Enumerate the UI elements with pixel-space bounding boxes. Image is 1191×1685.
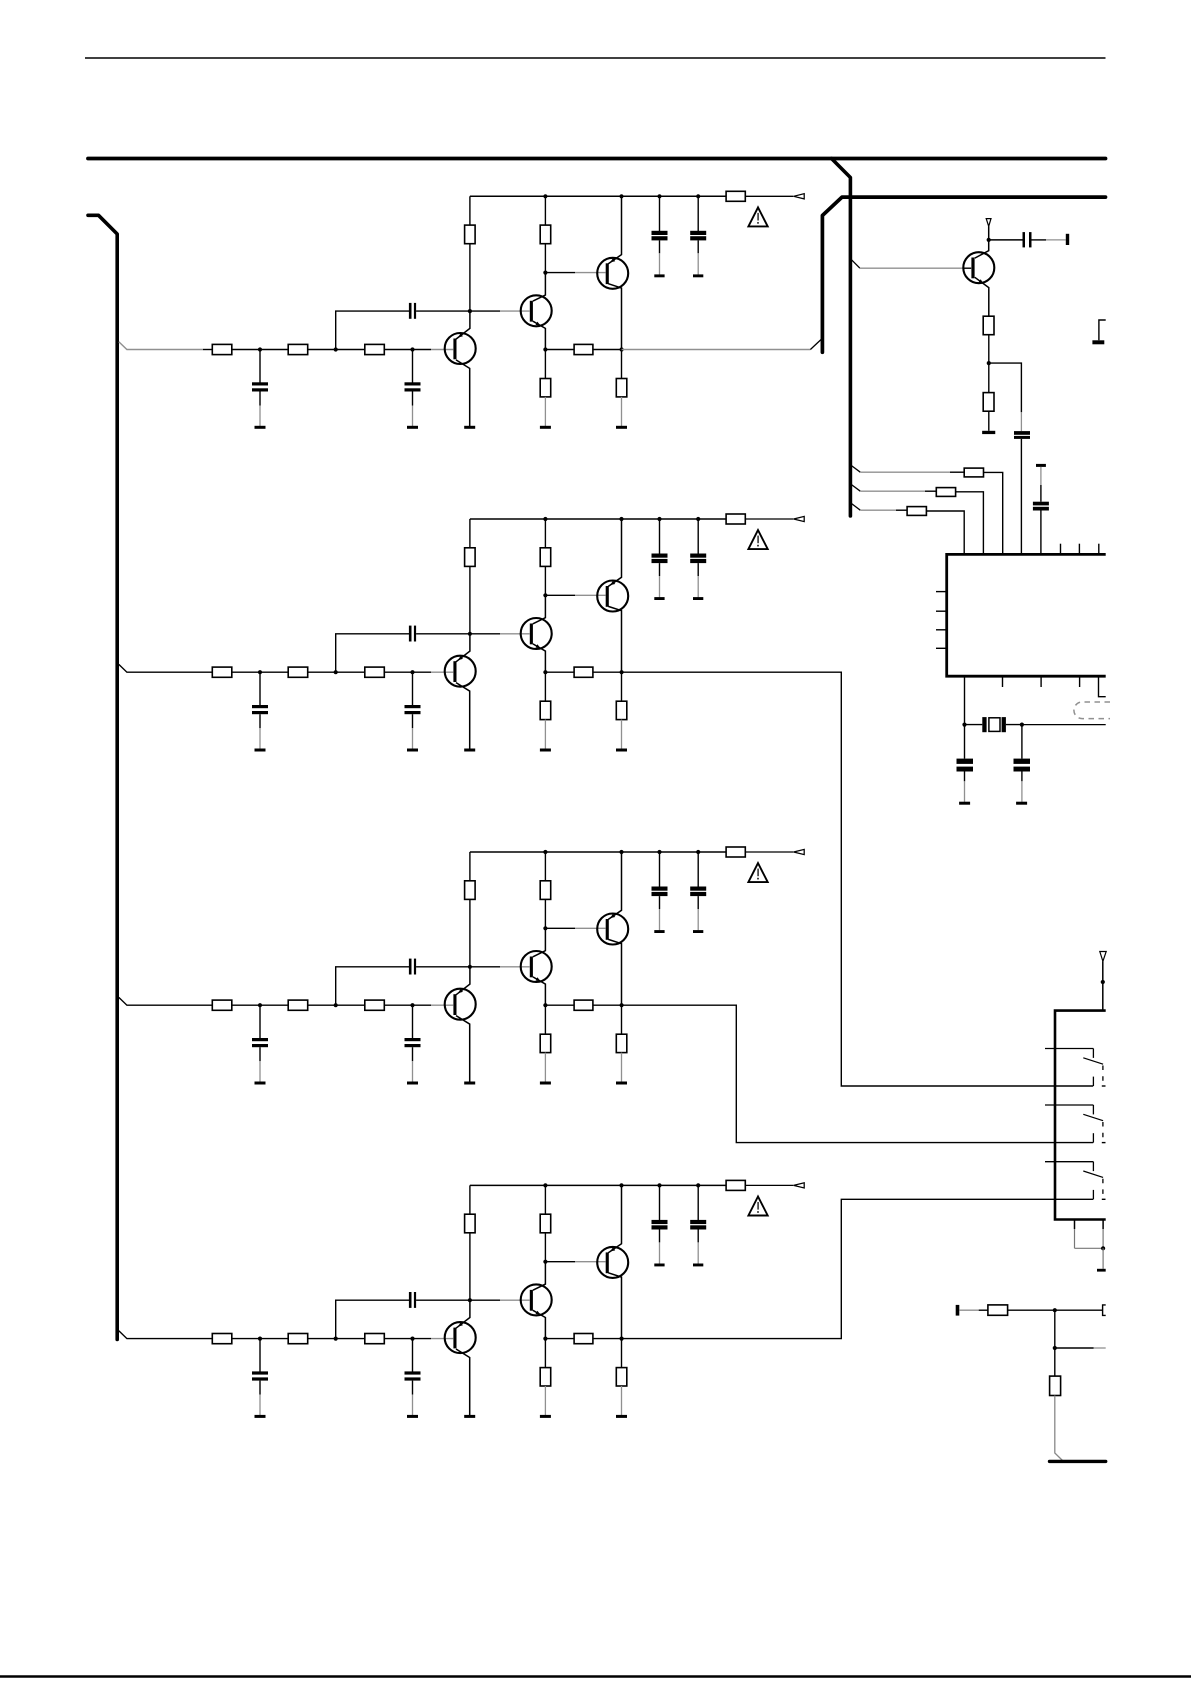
pin stub IC left 3 (936, 629, 947, 631)
resistor R8 emitter Q3 (amp 3) (616, 1034, 627, 1052)
wire node A down to C1 (amp 3) (259, 1006, 261, 1038)
wire C22 to IC pin5 (1040, 511, 1042, 554)
transistor Q1 (amp 1) (445, 311, 476, 426)
node rail-R5 junction (amp 4) (543, 1183, 547, 1187)
wire Q3 emitter to R8 (amp 1) (621, 350, 623, 379)
terminal bar above C22 (1036, 464, 1046, 467)
capacitor C3 coupling (amp 1) (409, 303, 416, 319)
off-page connector arrow (amp 4) (794, 1183, 805, 1188)
pin stub IC bottom 2 (1002, 676, 1004, 687)
wire R7 to node G (amp 1) (593, 349, 622, 351)
wire R4 to node D (amp 4) (469, 1233, 471, 1300)
ground below switch box (1097, 1269, 1106, 1272)
wire R7 to node G (amp 2) (593, 671, 622, 673)
wire R3 to node C (amp 2) (384, 671, 412, 673)
wire rail down to R5 (amp 2) (544, 519, 546, 548)
node AGC junction (1053, 1308, 1057, 1312)
ground below C24 (1016, 802, 1027, 805)
bus: left input bus (thick vertical) (88, 215, 117, 1339)
wire R9 to off-page arrow (amp 3) (745, 851, 793, 853)
resistor R6 emitter Q2 (amp 3) (540, 1034, 551, 1052)
node rail-R5 junction (amp 2) (543, 517, 547, 521)
resistor R3 series (amp 2) (365, 667, 385, 677)
wire C2 to ground (amp 3) (412, 1047, 414, 1082)
wire C23 to ground (964, 772, 966, 802)
wire R8 to ground (amp 1) (621, 397, 623, 426)
pin stub IC left 2 (936, 610, 947, 612)
node E junction (amp 3) (543, 926, 547, 930)
wire R6 to ground (amp 4) (544, 1386, 546, 1415)
wire branch2 from bus (851, 485, 936, 492)
capacitor C24 crystal load (1014, 759, 1031, 772)
wire R6 to ground (amp 3) (544, 1053, 546, 1082)
capacitor C5 rail bypass (amp 1) (690, 231, 706, 241)
node on antenna2 line (1101, 980, 1105, 984)
terminal bar below C4 (amp 3) (654, 930, 664, 933)
ground below R8 (amp 4) (616, 1415, 627, 1418)
node B junction (amp 4) (334, 1337, 338, 1341)
wire R2 to node B to R3 (amp 2) (308, 671, 365, 673)
ground below C2 (amp 1) (407, 426, 418, 429)
wire output amp4 to switch S3 (622, 1199, 1094, 1338)
wire IC pin to crystal node (964, 676, 966, 724)
off-page connector arrow (amp 3) (794, 849, 805, 854)
wire base of Q3 (amp 3) (545, 927, 605, 929)
node C junction (amp 3) (410, 1003, 414, 1007)
resistor R8 emitter Q3 (amp 2) (616, 701, 627, 719)
wire node F to R7 (amp 4) (545, 1338, 574, 1340)
wire node F to R7 (amp 3) (545, 1004, 574, 1006)
wire C5 to terminal (amp 4) (697, 1230, 699, 1264)
wire C2 to ground (amp 1) (412, 392, 414, 427)
terminal bar below C5 (amp 1) (693, 274, 703, 277)
wire R5 to node E (amp 3) (544, 899, 546, 928)
transistor Q3 (amp 3) (597, 852, 628, 1005)
resistor R5 collector load Q2 (amp 2) (540, 548, 551, 567)
wire base of Q1 (amp 2) (413, 671, 454, 673)
resistor R23 branch2 (936, 488, 955, 497)
resistor R5 collector load Q2 (amp 3) (540, 881, 551, 900)
wire terminal to R30 (959, 1309, 988, 1311)
wire node F to R7 (amp 1) (545, 349, 574, 351)
switch S2 lever (1083, 1114, 1103, 1120)
wire R3 to node C (amp 3) (384, 1004, 412, 1006)
resistor R9 rail feed (amp 3) (726, 847, 745, 857)
capacitor C2 to ground (amp 4) (405, 1371, 421, 1380)
terminal bar below C5 (amp 2) (693, 597, 703, 600)
wire box bottom left pin loop (1075, 1221, 1104, 1249)
wire rail down to C4 (amp 3) (659, 852, 661, 887)
resistor R4 collector load Q1 (amp 1) (465, 225, 476, 244)
capacitor C4 rail bypass (amp 1) (652, 231, 668, 241)
wire rail down to R5 (amp 3) (544, 852, 546, 881)
wire base of Q1 (amp 4) (413, 1338, 454, 1340)
wire node right and down to C21 (989, 363, 1022, 431)
node rail-Q3 junction (amp 4) (619, 1183, 623, 1187)
pin stub IC left 1 (936, 591, 947, 593)
wire R20 to node (988, 335, 990, 363)
wire R22 to IC pin3 (984, 472, 1003, 553)
wire C3 to node D (amp 1) (416, 310, 470, 312)
node C junction (amp 4) (410, 1337, 414, 1341)
off-page connector arrow (amp 1) (794, 194, 805, 199)
resistor R7 emitter link (amp 4) (574, 1334, 593, 1344)
wire input from left bus (amp 1) (119, 342, 203, 350)
wire node C down to C2 (amp 2) (412, 673, 414, 705)
wire R9 to off-page arrow (amp 1) (745, 195, 793, 197)
wire base of Q2 (amp 2) (471, 633, 530, 635)
wire rail down to C5 (amp 1) (697, 196, 699, 231)
wire C1 to ground (amp 1) (259, 392, 261, 427)
wire input into R1 (amp 1) (203, 349, 212, 351)
wire C2 to ground (amp 2) (412, 714, 414, 749)
ground at clipped wire (1092, 340, 1104, 344)
wire C5 to terminal (amp 2) (697, 563, 699, 597)
node rail-C4 junction (amp 4) (657, 1183, 661, 1187)
pin IC bottom 5 to off-page (1099, 676, 1106, 697)
wire C1 to ground (amp 4) (259, 1381, 261, 1416)
resistor R1 series input (amp 1) (212, 344, 232, 354)
wire box bottom right pin (1102, 1221, 1104, 1249)
resistor R8 emitter Q3 (amp 1) (616, 379, 627, 397)
resistor R22 branch1 (964, 468, 983, 477)
wire R23 to IC pin2 (956, 492, 984, 553)
wire node to C23 (964, 725, 966, 759)
transistor Q3 (amp 2) (597, 519, 628, 672)
crystal X1 (982, 717, 1006, 732)
wire node A down to C1 (amp 1) (259, 351, 261, 383)
wire C4 to terminal (amp 4) (659, 1230, 661, 1264)
node Q4 collector junction (987, 238, 991, 242)
resistor R1 series input (amp 4) (212, 1334, 232, 1344)
resistor R3 series (amp 1) (365, 344, 385, 354)
resistor R8 emitter Q3 (amp 4) (616, 1368, 627, 1386)
wire R6 to ground (amp 2) (544, 720, 546, 749)
wire crystal node2 to off-page (1022, 724, 1106, 726)
page footer rule (0, 1675, 1191, 1678)
node rail-C4 junction (amp 3) (657, 850, 661, 854)
switch S1 upper contact pin (1045, 1049, 1093, 1058)
wire node to crystal (965, 724, 983, 726)
node rail-C4 junction (amp 1) (657, 194, 661, 198)
switch S3 upper contact pin (1045, 1162, 1093, 1171)
wire node to C20 (989, 239, 1023, 241)
wire node A down to C1 (amp 4) (259, 1340, 261, 1372)
node B junction (amp 2) (334, 670, 338, 674)
wire rail down to R4 (amp 4) (469, 1185, 471, 1214)
terminal bar below C5 (amp 4) (693, 1264, 703, 1267)
wire output amp2 to switch S1 (622, 672, 1094, 1086)
wire branch1 from bus (851, 466, 964, 473)
capacitor C23 crystal load (957, 759, 974, 772)
warning triangle symbol (amp 2) (748, 530, 767, 549)
switch S3 linkage (dashed) (1102, 1179, 1104, 1195)
resistor R2 series (amp 3) (288, 1000, 308, 1010)
wire Q3 emitter to R8 (amp 3) (621, 1005, 623, 1034)
capacitor C3 coupling (amp 2) (409, 626, 416, 642)
node A junction (amp 3) (258, 1003, 262, 1007)
node E junction (amp 4) (543, 1260, 547, 1264)
ground below Q1 emitter (amp 3) (464, 1082, 475, 1085)
transistor Q2 (amp 3) (521, 928, 552, 1005)
bus: branch from top rail down to IC area (thick vertical x=850) (832, 159, 851, 517)
wire C1 to ground (amp 3) (259, 1047, 261, 1082)
wire R4 to node D (amp 1) (469, 244, 471, 311)
wire node F to R7 (amp 2) (545, 671, 574, 673)
wire rail down to C4 (amp 4) (659, 1185, 661, 1220)
wire R1 to node A (amp 2) (232, 671, 288, 673)
wire C4 to terminal (amp 1) (659, 240, 661, 274)
switch S2 linkage tail (dashed) (1102, 1142, 1106, 1144)
transistor Q1 (amp 4) (445, 1300, 476, 1415)
switch S3 lower contact hook (1092, 1190, 1094, 1199)
ground below C2 (amp 2) (407, 749, 418, 752)
wire C5 to terminal (amp 1) (697, 240, 699, 274)
supply rail of amp (amp 2) (470, 518, 726, 520)
wire R3 to node C (amp 1) (384, 349, 412, 351)
wire Q2 emitter to R6 (amp 1) (544, 350, 546, 379)
wire C24 to ground (1021, 772, 1023, 802)
resistor R7 emitter link (amp 3) (574, 1000, 593, 1010)
node Q4 emitter divider junction (987, 361, 991, 365)
capacitor C1 to ground (amp 4) (252, 1371, 268, 1380)
terminal bar below C4 (amp 4) (654, 1264, 664, 1267)
transistor Q1 (amp 2) (445, 634, 476, 749)
wire C3 to node D (amp 3) (416, 966, 470, 968)
wire branch3 from bus (851, 503, 907, 510)
resistor R20 emitter Q4 (983, 316, 994, 335)
terminal bar below C5 (amp 3) (693, 930, 703, 933)
pin stub IC left 4 (936, 647, 947, 649)
ground below R8 (amp 2) (616, 749, 627, 752)
ground below C1 (amp 3) (255, 1082, 266, 1085)
wire R7 to node G (amp 4) (593, 1338, 622, 1340)
capacitor C4 rail bypass (amp 4) (652, 1220, 668, 1230)
wire R2 to node B to R3 (amp 3) (308, 1004, 365, 1006)
node crystal left junction (962, 723, 966, 727)
wire R4 to node D (amp 2) (469, 566, 471, 633)
wire R1 to node A (amp 4) (232, 1338, 288, 1340)
wire base into Q4 (964, 267, 972, 269)
capacitor C5 rail bypass (amp 4) (690, 1220, 706, 1230)
ground below C2 (amp 3) (407, 1082, 418, 1085)
wire rail down to R4 (amp 1) (469, 196, 471, 225)
supply rail of amp (amp 3) (470, 851, 726, 853)
node AGC junction 2 (1053, 1346, 1057, 1350)
resistor R9 rail feed (amp 2) (726, 514, 745, 524)
wire base of Q2 (amp 1) (471, 310, 530, 312)
node rail-R5 junction (amp 3) (543, 850, 547, 854)
terminal bar right of C20 (1066, 234, 1069, 245)
terminal bar below C4 (amp 2) (654, 597, 664, 600)
wire base of Q3 (amp 1) (545, 272, 605, 274)
ground below C1 (amp 1) (255, 426, 266, 429)
wire node2 to C24 (1021, 725, 1023, 759)
wire crystal to node2 (1006, 724, 1022, 726)
ground below R6 (amp 2) (540, 749, 551, 752)
wire R9 to off-page arrow (amp 2) (745, 518, 793, 520)
wire R2 to node B to R3 (amp 1) (308, 349, 365, 351)
wire input from left bus (amp 2) (119, 664, 213, 672)
resistor R4 collector load Q1 (amp 2) (465, 548, 476, 567)
node B junction (amp 3) (334, 1003, 338, 1007)
wire node to clipped connector (1055, 1309, 1103, 1311)
capacitor C22 series to IC (1033, 502, 1049, 511)
wire output amp3 to switch S2 (622, 1005, 1094, 1142)
switch S1 linkage (dashed) (1102, 1066, 1104, 1082)
bus: second rail y=197 with drop to block1 output (thick) (822, 197, 1105, 352)
transistor Q3 (amp 4) (597, 1185, 628, 1338)
wire rail down to R4 (amp 2) (469, 519, 471, 548)
node E junction (amp 2) (543, 593, 547, 597)
wire node B up and over to C3 (amp 2) (336, 634, 409, 672)
ground below R6 (amp 1) (540, 426, 551, 429)
capacitor C2 to ground (amp 2) (405, 705, 421, 714)
wire node C down to C2 (amp 1) (412, 351, 414, 383)
wire C5 to terminal (amp 3) (697, 896, 699, 930)
wire rail down to R4 (amp 3) (469, 852, 471, 881)
off-page connector arrow (amp 2) (794, 516, 805, 521)
dashed module outline (clipped) (1074, 702, 1110, 719)
wire node A down to C1 (amp 2) (259, 673, 261, 705)
wire base of Q3 (amp 4) (545, 1261, 605, 1263)
capacitor C1 to ground (amp 1) (252, 382, 268, 391)
switch S3 lever (1083, 1171, 1103, 1177)
wire rail down to C4 (amp 1) (659, 196, 661, 231)
capacitor C3 coupling (amp 4) (409, 1292, 416, 1308)
ground below C23 (959, 802, 970, 805)
wire C2 to ground (amp 4) (412, 1381, 414, 1416)
wire node B up and over to C3 (amp 3) (336, 967, 409, 1005)
node B junction (amp 1) (334, 347, 338, 351)
capacitor C1 to ground (amp 3) (252, 1038, 268, 1047)
wire R2 to node B to R3 (amp 4) (308, 1338, 365, 1340)
wire R24 to IC pin1 (926, 511, 964, 553)
capacitor C20 coupling (1023, 232, 1032, 247)
ground below R6 (amp 3) (540, 1082, 551, 1085)
transistor Q4 (963, 241, 994, 316)
wire base of Q1 (amp 1) (413, 349, 454, 351)
wire antenna2 line to switch box (1100, 952, 1106, 1011)
node D junction (amp 1) (468, 309, 472, 313)
switch S2 upper contact pin (1045, 1105, 1093, 1114)
wire C4 to terminal (amp 3) (659, 896, 661, 930)
resistor R4 collector load Q1 (amp 4) (465, 1214, 476, 1233)
wire R8 to ground (amp 4) (621, 1386, 623, 1415)
supply rail of amp (amp 4) (470, 1184, 726, 1186)
wire C4 to terminal (amp 2) (659, 563, 661, 597)
IC U1 tuner chip (clipped at right) (947, 554, 1106, 676)
ground below R8 (amp 3) (616, 1082, 627, 1085)
capacitor C4 rail bypass (amp 3) (652, 887, 668, 897)
wire node B up and over to C3 (amp 1) (336, 311, 409, 349)
node G junction (amp 4) (620, 1337, 624, 1341)
transistor Q1 (amp 3) (445, 967, 476, 1082)
wire node B up and over to C3 (amp 4) (336, 1300, 409, 1338)
ground below C1 (amp 2) (255, 749, 266, 752)
node G junction (amp 3) (620, 1003, 624, 1007)
wire R6 to ground (amp 1) (544, 397, 546, 426)
wire rail down to C5 (amp 2) (697, 519, 699, 554)
bus: top supply rail (thick) (88, 157, 1106, 161)
node C junction (amp 1) (410, 347, 414, 351)
wire R8 to ground (amp 2) (621, 720, 623, 749)
switch S1 linkage tail (dashed) (1102, 1085, 1106, 1087)
pin stub IC bottom 3 (1040, 676, 1042, 687)
node A junction (amp 4) (258, 1337, 262, 1341)
pin stub IC top 6 (1060, 544, 1062, 554)
wire R30 to node (1008, 1309, 1055, 1311)
wire base of Q2 (amp 4) (471, 1299, 530, 1301)
resistor R2 series (amp 1) (288, 344, 308, 354)
node crystal right junction (1020, 723, 1024, 727)
node rail-R5 junction (amp 1) (543, 194, 547, 198)
wire base of Q3 (amp 2) (545, 594, 605, 596)
wire R1 to node A (amp 1) (232, 349, 288, 351)
resistor R2 series (amp 2) (288, 667, 308, 677)
node rail-C5 junction (amp 2) (696, 517, 700, 521)
node F junction (amp 1) (543, 347, 547, 351)
warning triangle symbol (amp 4) (748, 1197, 767, 1216)
node F junction (amp 4) (543, 1337, 547, 1341)
resistor R21 to ground (983, 393, 994, 412)
resistor R3 series (amp 4) (365, 1334, 385, 1344)
node A junction (amp 1) (258, 347, 262, 351)
terminal bar AGC input (956, 1305, 960, 1316)
resistor R1 series input (amp 3) (212, 1000, 232, 1010)
capacitor C1 to ground (amp 2) (252, 705, 268, 714)
switch S3 linkage tail (dashed) (1102, 1198, 1106, 1200)
wire C3 to node D (amp 2) (416, 633, 470, 635)
page header rule (85, 57, 1106, 59)
node below switch box (1101, 1246, 1105, 1250)
wire node to ground (1102, 1248, 1104, 1269)
wire R5 to node E (amp 4) (544, 1233, 546, 1262)
wire Q2 emitter to R6 (amp 3) (544, 1005, 546, 1034)
node A junction (amp 2) (258, 670, 262, 674)
wire terminal to C22 (1040, 467, 1042, 502)
node rail-C5 junction (amp 1) (696, 194, 700, 198)
node rail-Q3 junction (amp 1) (619, 194, 623, 198)
wire rail down to C4 (amp 2) (659, 519, 661, 554)
capacitor C4 rail bypass (amp 2) (652, 554, 668, 564)
switch S2 linkage (dashed) (1102, 1122, 1104, 1138)
wire output amp1 to second rail bus (622, 339, 822, 350)
node rail-C4 junction (amp 2) (657, 517, 661, 521)
wire R4 to node D (amp 3) (469, 899, 471, 966)
terminal bar below C4 (amp 1) (654, 274, 664, 277)
pin stub IC top 7 (1078, 544, 1080, 554)
resistor R6 emitter Q2 (amp 1) (540, 379, 551, 397)
wire input from left bus (amp 3) (119, 997, 213, 1005)
wire R3 to node C (amp 4) (384, 1338, 412, 1340)
wire R21 to ground (988, 411, 990, 431)
warning triangle symbol (amp 1) (748, 207, 767, 226)
ground bus bar (thick) (1050, 1460, 1106, 1463)
wire Q3 emitter to R8 (amp 4) (621, 1339, 623, 1368)
resistor R6 emitter Q2 (amp 2) (540, 701, 551, 719)
transistor Q2 (amp 4) (521, 1262, 552, 1339)
wire R8 to ground (amp 3) (621, 1053, 623, 1082)
pin stub IC bottom 4 (1079, 676, 1081, 687)
ground below Q1 emitter (amp 1) (464, 426, 475, 429)
wire node C down to C2 (amp 3) (412, 1006, 414, 1038)
node D junction (amp 2) (468, 632, 472, 636)
ground below R6 (amp 4) (540, 1415, 551, 1418)
wire Q2 emitter to R6 (amp 2) (544, 672, 546, 701)
switch S1 lower contact hook (1092, 1077, 1094, 1086)
ground below R21 (982, 431, 995, 434)
